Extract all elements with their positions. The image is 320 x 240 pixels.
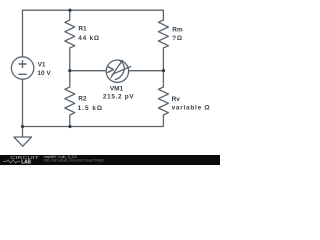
- svg-text:VM1: VM1: [110, 85, 124, 92]
- resistor R1: [65, 10, 75, 70]
- ground: [22, 127, 24, 138]
- resistor Rm: [158, 20, 168, 71]
- resistor Rv: [158, 71, 168, 127]
- svg-text:1.5 kΩ: 1.5 kΩ: [78, 105, 103, 112]
- svg-text:Rv: Rv: [172, 96, 181, 103]
- junction ground tap: [21, 125, 24, 128]
- svg-text:44 kΩ: 44 kΩ: [78, 35, 99, 42]
- svg-text:Rm: Rm: [172, 26, 183, 33]
- wire bottom rail: [23, 126, 164, 128]
- svg-text:10 V: 10 V: [37, 70, 51, 77]
- junction node A (R1/R2/VM1): [68, 69, 71, 72]
- junction R1 top: [68, 9, 71, 12]
- wire right vertical top: [162, 10, 164, 20]
- svg-text:R2: R2: [78, 95, 87, 102]
- svg-text:http://circuitlab.com/cmc73cad: http://circuitlab.com/cmc73cad724bj3: [44, 159, 104, 163]
- footer bar: [0, 155, 220, 165]
- svg-text:215.2 pV: 215.2 pV: [103, 93, 134, 100]
- svg-text:LAB: LAB: [21, 159, 31, 165]
- voltmeter VM1: [106, 60, 128, 82]
- wire top horizontal: [23, 9, 164, 11]
- junction R2 bottom: [68, 125, 71, 128]
- junction node B (Rm/Rv/VM1): [162, 69, 165, 72]
- voltage source V1: [11, 57, 33, 79]
- wire left vertical bottom (V1 to bottom rail): [22, 79, 24, 126]
- wire middle left (node A to voltmeter): [70, 70, 106, 72]
- svg-text:V1: V1: [38, 62, 46, 69]
- wire middle right (voltmeter to node B): [129, 70, 164, 72]
- wire left vertical top (to V1): [22, 10, 24, 57]
- svg-text:variable Ω: variable Ω: [172, 105, 210, 112]
- resistor R2: [65, 71, 75, 127]
- svg-text:? Ω: ? Ω: [172, 35, 182, 42]
- svg-text:R1: R1: [78, 26, 87, 33]
- logo zigzag wire: [3, 160, 20, 163]
